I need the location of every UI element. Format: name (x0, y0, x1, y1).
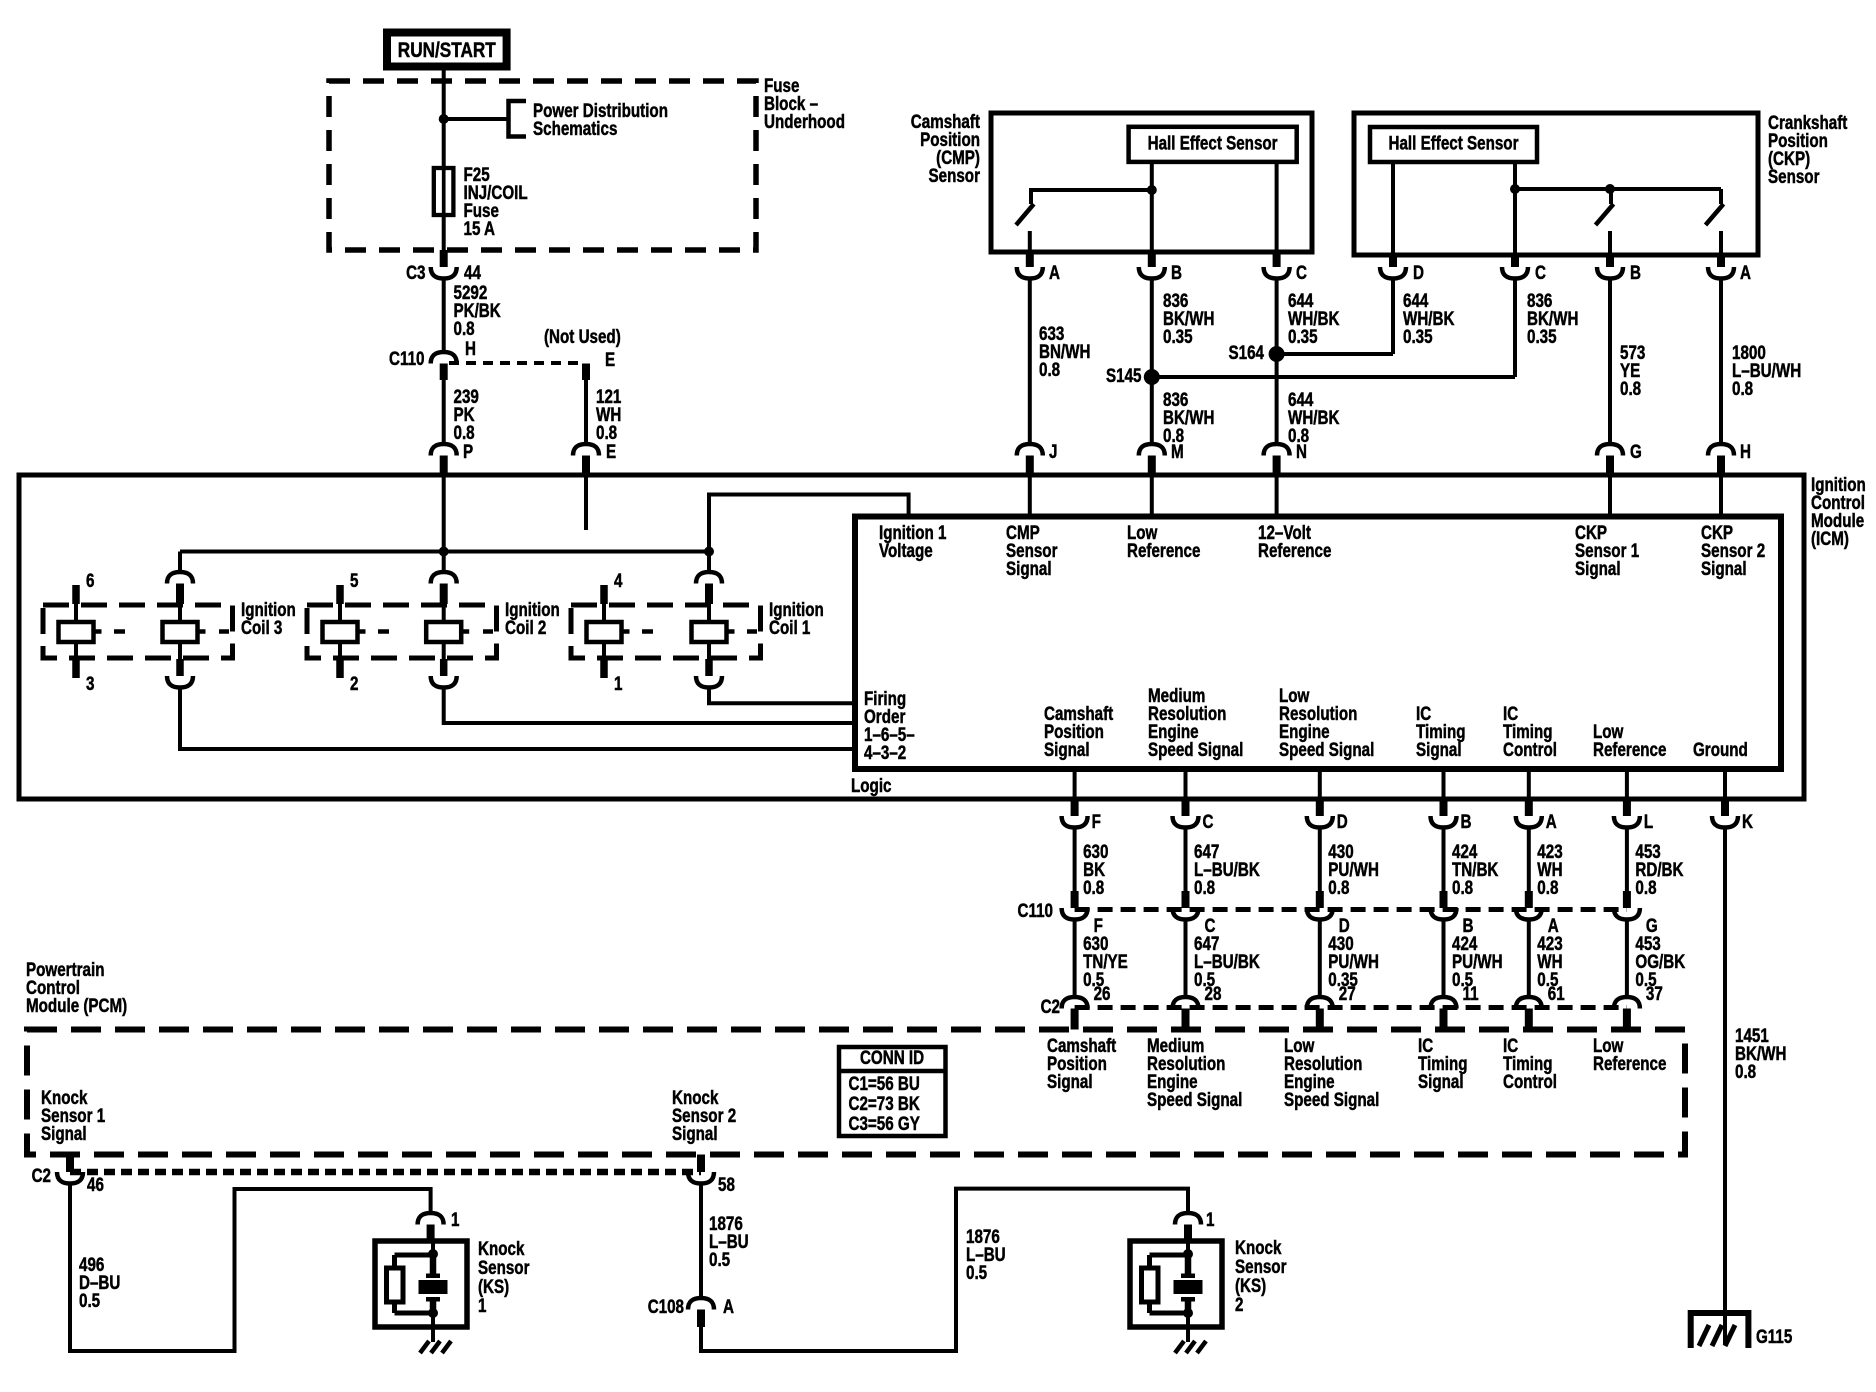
connector C2 pin 27 (1307, 997, 1333, 1009)
wire CMP hall to C (1275, 162, 1279, 252)
wire E inside ICM not used (584, 475, 588, 530)
connector ICM pin N (1264, 444, 1290, 456)
svg-text:Coil 3: Coil 3 (241, 616, 282, 638)
connector CMP pin B (1148, 252, 1156, 267)
svg-text:E: E (605, 348, 615, 370)
connector C110 pin A (1525, 891, 1533, 908)
svg-text:5: 5 (350, 569, 359, 591)
svg-text:C3: C3 (406, 261, 425, 283)
svg-text:Signal: Signal (1418, 1070, 1464, 1092)
connector CKP pin A (1717, 255, 1725, 267)
svg-text:Signal: Signal (1416, 738, 1462, 760)
svg-text:Underhood: Underhood (764, 110, 845, 132)
PCM dashed box (27, 1030, 1685, 1155)
wire 453 RD/BK (1625, 828, 1629, 892)
wire 644 WH/BK to S164 (1391, 279, 1395, 355)
svg-text:G: G (1630, 440, 1642, 462)
svg-text:F: F (1092, 810, 1101, 832)
svg-text:S164: S164 (1229, 341, 1265, 363)
svg-text:0.35: 0.35 (1403, 325, 1433, 347)
svg-text:46: 46 (87, 1173, 104, 1195)
CKP switch blade B (1609, 189, 1613, 204)
CKP sensor box (1354, 113, 1758, 255)
svg-text:37: 37 (1646, 982, 1663, 1004)
svg-text:H: H (1740, 440, 1751, 462)
ignition coil 3 primary winding (167, 572, 193, 584)
svg-text:C110: C110 (1018, 899, 1053, 921)
ignition coil 3 secondary winding terminal 6-3 (72, 585, 80, 604)
svg-text:Signal: Signal (1044, 738, 1090, 760)
junction dot coil bus right (704, 547, 714, 557)
svg-text:S145: S145 (1106, 364, 1142, 386)
wire logic box to ICM pin L (1625, 769, 1629, 799)
wire coil 3 firing line (180, 688, 855, 750)
knock sensor KS1 (375, 1241, 467, 1327)
svg-text:0.8: 0.8 (1083, 876, 1104, 898)
connector CMP pin C (1273, 252, 1281, 267)
svg-text:J: J (1049, 440, 1057, 462)
svg-text:4: 4 (614, 569, 623, 591)
svg-text:0.5: 0.5 (79, 1289, 100, 1311)
connector C3 pin 44 (440, 250, 448, 267)
svg-text:G115: G115 (1756, 1325, 1793, 1347)
connector C2 pin 11 (1431, 997, 1457, 1009)
svg-text:0.8: 0.8 (1039, 358, 1060, 380)
svg-text:0.8: 0.8 (1194, 876, 1215, 898)
wire 630 BK (1073, 828, 1077, 892)
ignition coil 1 primary winding (696, 572, 722, 584)
wire CKP hall to C (1513, 162, 1517, 255)
ignition coil 3 core dashes (114, 629, 125, 634)
wire 496 D-BU (70, 1184, 431, 1352)
svg-text:0.8: 0.8 (1537, 876, 1558, 898)
wire logic box to ICM pin F (1073, 769, 1077, 799)
connector ICM pin J (1017, 444, 1043, 456)
wire CKP internal bus (1515, 187, 1721, 191)
svg-text:C2=73 BK: C2=73 BK (849, 1092, 921, 1114)
svg-text:4–3–2: 4–3–2 (864, 741, 906, 763)
svg-text:44: 44 (464, 261, 481, 283)
svg-text:Speed Signal: Speed Signal (1284, 1088, 1379, 1110)
wire ignition 1 voltage feed (709, 495, 909, 572)
junction dot CKP B branch (1605, 184, 1615, 194)
wire 423 WH (1527, 920, 1531, 998)
svg-text:28: 28 (1205, 982, 1222, 1004)
fuse F25 symbol (434, 168, 454, 215)
svg-text:61: 61 (1548, 982, 1565, 1004)
svg-text:Signal: Signal (41, 1122, 87, 1144)
svg-text:C1=56 BU: C1=56 BU (849, 1072, 920, 1094)
wire CMP hall to B (1150, 162, 1154, 252)
connector CMP pin A (1026, 252, 1034, 267)
svg-text:Ground: Ground (1693, 738, 1748, 760)
junction dot CMP B wire (1147, 185, 1157, 195)
ignition coil 1 dashed box (571, 605, 761, 658)
wire 239 PK (442, 380, 446, 444)
svg-text:1: 1 (614, 672, 623, 694)
wire coil 1 top feed (707, 552, 711, 573)
connector C2 pin 26 (1062, 997, 1088, 1009)
junction dot power distribution tap (439, 114, 449, 124)
svg-text:Coil 2: Coil 2 (505, 616, 546, 638)
junction dot coil bus at P (439, 547, 449, 557)
svg-text:A: A (1049, 261, 1060, 283)
connector KS2 pin 1 (1175, 1213, 1201, 1225)
svg-text:C108: C108 (648, 1295, 685, 1317)
svg-text:RUN/START: RUN/START (398, 38, 496, 62)
svg-text:26: 26 (1094, 982, 1111, 1004)
connector ICM pin G (1597, 444, 1623, 456)
svg-text:Signal: Signal (1047, 1070, 1093, 1092)
svg-text:C2: C2 (32, 1164, 51, 1186)
connector CKP pin B (1606, 255, 1614, 267)
junction dot CKP C wire (1510, 184, 1520, 194)
wire logic box to ICM pin D (1318, 769, 1322, 799)
wire 121 WH (584, 380, 588, 444)
svg-text:0.8: 0.8 (454, 317, 475, 339)
power distribution schematics bracket (509, 101, 527, 137)
wire P inside ICM (442, 475, 446, 552)
wire 1876 L-BU lower (701, 1189, 1188, 1351)
connector C110 pin C (1182, 891, 1190, 908)
wire junction to fuse F25 (442, 119, 446, 166)
wire 630 TN/YE (1073, 920, 1077, 998)
connector ICM output pin D (1316, 799, 1324, 816)
connector C2 pin 37 (1614, 997, 1640, 1009)
connector ICM pin H (1708, 444, 1734, 456)
wire H inside ICM (1719, 475, 1723, 517)
wire 836 BK/WH upper (1150, 279, 1154, 378)
svg-text:Speed Signal: Speed Signal (1147, 1088, 1242, 1110)
wire J inside ICM (1028, 475, 1032, 517)
svg-text:0.8: 0.8 (1635, 876, 1656, 898)
svg-text:K: K (1742, 810, 1753, 832)
svg-text:Reference: Reference (1258, 539, 1331, 561)
svg-text:Sensor: Sensor (1768, 165, 1820, 187)
splice S164 (1269, 346, 1285, 362)
connector C2 pin 58 (697, 1155, 705, 1173)
connector ICM output pin L (1623, 799, 1631, 816)
ignition coil 2 core dashes (378, 629, 389, 634)
connector C2 pin 61 (1516, 997, 1542, 1009)
connector C2 pin 28 (1173, 997, 1199, 1009)
svg-text:Sensor: Sensor (929, 164, 981, 186)
wire 647 L–BU/BK (1184, 920, 1188, 998)
svg-text:B: B (1461, 810, 1472, 832)
ignition coil 2 secondary winding terminal 5-2 (336, 585, 344, 604)
wire coil 2 firing line (444, 688, 855, 724)
connector ICM pin E (573, 444, 599, 456)
svg-text:0.8: 0.8 (1732, 377, 1753, 399)
svg-text:D: D (1337, 810, 1348, 832)
svg-text:C: C (1296, 261, 1307, 283)
svg-text:Signal: Signal (672, 1122, 718, 1144)
wire fuse to box edge (442, 215, 446, 250)
wire 424 TN/BK (1442, 828, 1446, 892)
svg-text:0.35: 0.35 (1288, 325, 1318, 347)
svg-text:E: E (606, 440, 616, 462)
svg-text:Speed Signal: Speed Signal (1148, 738, 1243, 760)
svg-text:(ICM): (ICM) (1811, 527, 1849, 549)
svg-text:A: A (1740, 261, 1751, 283)
ground G115 (1691, 1313, 1749, 1348)
connector C110 pin D (1316, 891, 1324, 908)
CMP switch blade (1028, 231, 1032, 252)
svg-text:Hall Effect Sensor: Hall Effect Sensor (1148, 132, 1278, 154)
connector line C2 dotted (70, 1169, 701, 1176)
connector C110 pin E not used (582, 364, 590, 381)
svg-text:Schematics: Schematics (533, 117, 617, 139)
ignition coil 2 dashed box (307, 605, 497, 658)
ignition coil 1 secondary winding terminal 4-1 (600, 585, 608, 604)
connector C110 pin F (1071, 891, 1079, 908)
wire logic box ground to ICM pin K (1723, 769, 1727, 799)
svg-text:A: A (723, 1295, 734, 1317)
connector C110 pin H (431, 352, 457, 364)
wire CKP hall to D (1391, 162, 1395, 255)
wire S164 to CKP D (1277, 352, 1393, 356)
svg-text:C2: C2 (1041, 995, 1060, 1017)
wire logic box to ICM pin C (1184, 769, 1188, 799)
svg-text:B: B (1630, 261, 1641, 283)
connector C2 pin 46 (66, 1155, 74, 1173)
svg-text:15 A: 15 A (464, 217, 496, 239)
svg-text:Control: Control (1503, 738, 1557, 760)
wire M inside ICM (1150, 475, 1154, 517)
svg-text:Control: Control (1503, 1070, 1557, 1092)
svg-text:27: 27 (1339, 982, 1356, 1004)
ICM logic box (855, 517, 1781, 770)
svg-text:Module (PCM): Module (PCM) (26, 994, 127, 1016)
svg-text:0.5: 0.5 (966, 1261, 987, 1283)
wire logic box to ICM pin A (1527, 769, 1531, 799)
wire coil 3 top feed (178, 552, 182, 573)
svg-text:H: H (465, 337, 476, 359)
svg-text:B: B (1171, 261, 1182, 283)
splice S145 (1144, 369, 1160, 385)
svg-text:1: 1 (451, 1208, 460, 1230)
wire 1800 L-BU/WH (1719, 279, 1723, 445)
svg-text:C: C (1203, 810, 1214, 832)
svg-text:N: N (1296, 440, 1307, 462)
svg-text:0.35: 0.35 (1163, 325, 1193, 347)
connector ICM output pin C (1182, 799, 1190, 816)
connector C108 pin A (688, 1298, 714, 1310)
svg-text:C3=56 GY: C3=56 GY (849, 1112, 921, 1134)
ignition coil supply bus (180, 550, 709, 554)
svg-text:L: L (1644, 810, 1653, 832)
svg-text:Reference: Reference (1127, 539, 1200, 561)
svg-text:A: A (1546, 810, 1557, 832)
knock sensor KS2 (1130, 1241, 1222, 1327)
wire 424 PU/WH (1442, 920, 1446, 998)
svg-text:Hall Effect Sensor: Hall Effect Sensor (1389, 132, 1519, 154)
svg-text:0.8: 0.8 (1328, 876, 1349, 898)
svg-text:P: P (463, 440, 473, 462)
dashed connector line C110 (1075, 907, 1627, 912)
svg-text:1: 1 (1206, 1208, 1215, 1230)
wire 1451 BK/WH ground wire (1723, 828, 1727, 1345)
CMP sensor box (991, 113, 1312, 252)
svg-text:1: 1 (478, 1294, 487, 1316)
wire 5292 PK/BK (442, 279, 446, 353)
wire 573 YE (1608, 279, 1612, 445)
svg-text:0.8: 0.8 (1452, 876, 1473, 898)
svg-text:C: C (1535, 261, 1546, 283)
CONN ID table (839, 1047, 946, 1136)
svg-text:CONN ID: CONN ID (860, 1046, 924, 1068)
wire logic box to ICM pin B (1442, 769, 1446, 799)
svg-text:Signal: Signal (1575, 557, 1621, 579)
svg-text:(Not Used): (Not Used) (544, 325, 621, 347)
connector KS1 pin 1 (418, 1213, 444, 1225)
svg-text:0.35: 0.35 (1527, 325, 1557, 347)
wire G inside ICM (1608, 475, 1612, 517)
wire coil 2 top feed (442, 552, 446, 573)
connector ICM pin P (431, 444, 457, 456)
svg-text:0.8: 0.8 (1620, 377, 1641, 399)
svg-text:Logic: Logic (851, 774, 892, 796)
svg-text:M: M (1171, 440, 1184, 462)
dashed connector line C110 to pin E (449, 361, 583, 365)
svg-text:D: D (1413, 261, 1424, 283)
svg-text:0.8: 0.8 (1735, 1060, 1756, 1082)
wire 644 WH/BK upper (1275, 279, 1279, 355)
svg-text:0.5: 0.5 (709, 1248, 730, 1270)
svg-text:Reference: Reference (1593, 1052, 1666, 1074)
svg-text:Voltage: Voltage (879, 539, 933, 561)
wire 430 PU/WH (1318, 920, 1322, 998)
connector ICM pin M (1139, 444, 1165, 456)
hall effect sensor box CKP (1370, 127, 1537, 162)
wire 647 L–BU/BK (1184, 828, 1188, 892)
wire 423 WH (1527, 828, 1531, 892)
connector ICM output pin A (1525, 799, 1533, 816)
wire N inside ICM (1275, 475, 1279, 517)
dashed connector line C2 (1075, 1005, 1627, 1010)
svg-text:C110: C110 (389, 347, 424, 369)
svg-text:Coil 1: Coil 1 (769, 616, 811, 638)
svg-text:Reference: Reference (1593, 738, 1666, 760)
svg-text:Speed Signal: Speed Signal (1279, 738, 1374, 760)
ignition coil 1 core dashes (642, 629, 653, 634)
ignition coil 2 primary winding (431, 572, 457, 584)
connector C110 pin B (1440, 891, 1448, 908)
svg-text:3: 3 (86, 672, 94, 694)
svg-text:Signal: Signal (1701, 557, 1747, 579)
svg-text:6: 6 (86, 569, 94, 591)
wire 836 BK/WH lower (1150, 377, 1154, 444)
connector ICM output pin B (1440, 799, 1448, 816)
wire coil 1 firing line (709, 688, 855, 704)
connector CKP pin C (1511, 255, 1519, 267)
hall effect sensor box CMP (1129, 127, 1297, 162)
connector ICM output pin K (1721, 799, 1729, 816)
fuse block dashed box (329, 81, 756, 250)
connector CKP pin D (1389, 255, 1397, 267)
connector C110 pin G (1623, 891, 1631, 908)
wire to power distribution bracket (444, 117, 508, 121)
wire 644 WH/BK lower (1275, 354, 1279, 444)
svg-text:2: 2 (350, 672, 358, 694)
switch-feed box RUN/START (387, 33, 507, 67)
wire 430 PU/WH (1318, 828, 1322, 892)
CKP switch blade A (1719, 189, 1723, 204)
ignition coil 3 dashed box (43, 605, 233, 658)
wire 1876 L-BU upper (699, 1184, 703, 1299)
svg-text:2: 2 (1235, 1293, 1243, 1315)
wire RUN/START to fuse block (442, 71, 446, 82)
svg-text:11: 11 (1463, 982, 1479, 1004)
wire 453 OG/BK (1625, 920, 1629, 998)
wire 633 BN/WH (1028, 279, 1032, 445)
wire into fuse block (442, 81, 446, 119)
wire 836 BK/WH to S145 (1513, 279, 1517, 378)
svg-text:Signal: Signal (1006, 557, 1052, 579)
connector ICM output pin F (1071, 799, 1079, 816)
ICM outer box (19, 475, 1804, 799)
wire S145 to CKP C (1152, 375, 1515, 379)
svg-text:58: 58 (718, 1173, 735, 1195)
